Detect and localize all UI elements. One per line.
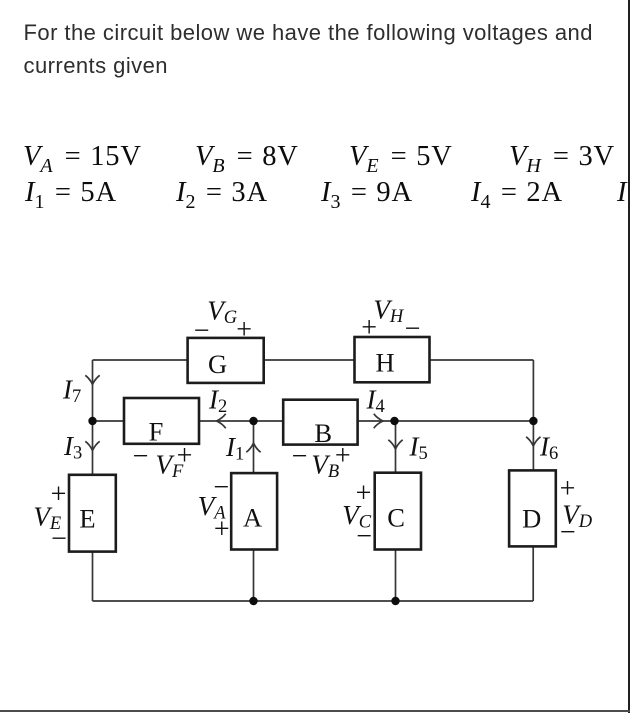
svg-text:−: − <box>194 315 210 346</box>
equation I1 = 5A <box>25 179 117 208</box>
frame bottom border <box>0 710 630 712</box>
component box E <box>69 475 116 552</box>
arrow I3 down <box>85 441 99 450</box>
svg-text:−: − <box>356 521 372 552</box>
component box B <box>283 400 357 445</box>
equation I5 (cut off) <box>617 179 627 208</box>
svg-text:−: − <box>560 517 576 548</box>
svg-text:I1: I1 <box>225 432 244 465</box>
node dot bottom A <box>249 597 257 605</box>
svg-text:VH: VH <box>373 295 405 328</box>
equation I2 = 3A <box>176 179 268 208</box>
wire E bottom <box>92 552 94 601</box>
component box F <box>124 398 199 444</box>
equation VE = 5V <box>349 143 453 172</box>
svg-text:H: H <box>376 348 395 378</box>
svg-text:E: E <box>79 504 95 534</box>
svg-text:A: A <box>243 503 262 533</box>
svg-text:−: − <box>51 524 67 555</box>
svg-text:+: + <box>335 440 351 471</box>
wire D bottom <box>532 546 534 601</box>
arrow I5 down <box>388 440 402 449</box>
svg-text:−: − <box>405 313 421 344</box>
equation VA = 15V <box>23 143 142 172</box>
svg-text:I6: I6 <box>539 432 558 465</box>
wire bottom rail <box>93 600 534 602</box>
wire middle rail node to F <box>93 420 125 422</box>
svg-text:I4: I4 <box>366 385 385 418</box>
wire top rail right segment <box>430 359 534 361</box>
svg-text:+: + <box>177 440 193 471</box>
svg-text:D: D <box>522 504 541 534</box>
wire top rail left segment <box>93 359 188 361</box>
svg-text:−: − <box>133 441 149 472</box>
svg-text:I2: I2 <box>208 385 227 418</box>
wire top rail middle segment <box>264 359 355 361</box>
component box D <box>509 470 556 546</box>
svg-text:+: + <box>560 474 576 505</box>
arrow I2 left <box>217 414 226 428</box>
equation I3 = 9A <box>321 179 413 208</box>
component box G <box>188 338 264 383</box>
svg-text:G: G <box>208 349 227 379</box>
svg-text:I5: I5 <box>409 432 428 465</box>
svg-text:+: + <box>214 514 230 545</box>
equation VH = 3V <box>509 143 615 172</box>
node dot B-right mid <box>390 417 398 425</box>
frame right border <box>628 0 630 713</box>
wire C bottom vertical <box>395 550 397 602</box>
wire A bottom vertical <box>253 550 255 602</box>
equation VB = 8V <box>195 143 299 172</box>
svg-text:+: + <box>356 478 372 509</box>
arrow I1 up <box>246 443 260 452</box>
arrow I6 down <box>526 437 540 446</box>
svg-text:+: + <box>361 313 377 344</box>
node dot bottom C <box>391 597 399 605</box>
equation I4 = 2A <box>471 179 563 208</box>
svg-text:−: − <box>292 441 308 472</box>
wire middle rail B to right vertical <box>358 420 534 422</box>
component box H <box>355 337 430 382</box>
wire A top vertical <box>253 421 255 473</box>
svg-text:F: F <box>149 417 164 447</box>
node dot F-B mid <box>249 417 257 425</box>
svg-text:+: + <box>236 314 252 345</box>
svg-text:VG: VG <box>207 296 237 329</box>
svg-text:−: − <box>213 472 229 503</box>
wire middle rail F to B <box>199 420 283 422</box>
svg-text:B: B <box>314 418 332 448</box>
wire C top vertical <box>395 421 397 473</box>
svg-text:+: + <box>51 479 67 510</box>
arrow I7 down <box>85 375 99 384</box>
component box C <box>375 473 421 550</box>
wire right vertical <box>532 360 534 470</box>
svg-text:I3: I3 <box>63 431 82 464</box>
svg-text:I7: I7 <box>62 374 81 407</box>
component box A <box>231 473 277 549</box>
wire left vertical <box>92 360 94 475</box>
node dot left mid <box>88 417 96 425</box>
node dot right mid <box>529 417 537 425</box>
arrow I4 right <box>374 414 383 428</box>
svg-text:C: C <box>387 503 405 533</box>
